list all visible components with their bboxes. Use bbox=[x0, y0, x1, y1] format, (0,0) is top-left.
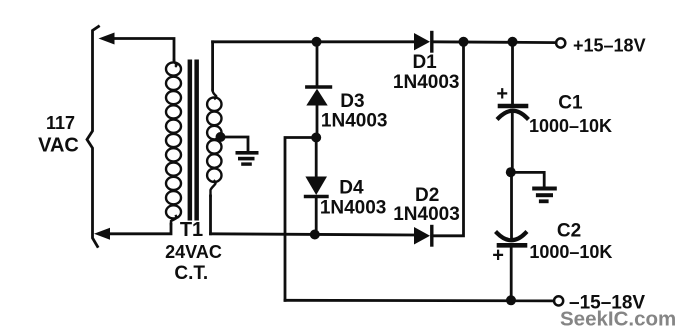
node junction top D2 riser bbox=[459, 37, 469, 47]
wire primary top lead with arrow bbox=[111, 39, 174, 61]
svg-text:VAC: VAC bbox=[38, 134, 79, 156]
wire D3 branch vertical bbox=[316, 42, 319, 86]
wire top bus right of D1 bbox=[434, 40, 557, 44]
wire C2 to negative rail bbox=[510, 248, 513, 301]
wire ground junction to ground bbox=[511, 172, 544, 186]
wire midpoint to D4 bbox=[315, 138, 318, 177]
wire ground junction to C2 bbox=[510, 172, 513, 238]
svg-text:D4: D4 bbox=[339, 177, 364, 198]
svg-text:SeekIC.com: SeekIC.com bbox=[560, 308, 676, 331]
wire D3 anode to midpoint bbox=[316, 106, 319, 138]
diode D1 bbox=[414, 33, 432, 52]
wire left vertical 117VAC side bbox=[87, 27, 99, 247]
wire top bus bbox=[213, 40, 414, 43]
svg-text:1N4003: 1N4003 bbox=[393, 204, 460, 225]
wire secondary top lead bbox=[211, 42, 214, 90]
wire bottom bus secondary bbox=[211, 234, 415, 235]
wire midpoint to negative rail bbox=[285, 138, 316, 301]
wire secondary bottom lead bbox=[209, 196, 212, 234]
diode D2 bbox=[414, 227, 432, 246]
svg-text:1000–10K: 1000–10K bbox=[529, 242, 612, 262]
wire D4 cathode to bottom bus bbox=[315, 197, 318, 235]
terminal -15-18V bbox=[554, 296, 563, 305]
transformer T1 secondary winding bbox=[207, 90, 221, 196]
wire C1 to ground junction bbox=[511, 114, 514, 172]
svg-text:D3: D3 bbox=[340, 91, 364, 112]
svg-text:117: 117 bbox=[46, 113, 75, 133]
svg-text:+15–18V: +15–18V bbox=[573, 35, 646, 55]
ground right bbox=[532, 187, 557, 204]
svg-text:T1: T1 bbox=[180, 219, 203, 241]
wire C1 branch vertical bbox=[511, 42, 514, 104]
transformer core bbox=[188, 60, 193, 221]
node junction top D3 bbox=[312, 37, 322, 47]
svg-text:24VAC: 24VAC bbox=[165, 242, 222, 262]
arrowhead top left bbox=[99, 33, 115, 45]
node junction bottom D4 bbox=[310, 230, 320, 240]
svg-text:C1: C1 bbox=[558, 93, 583, 114]
node midpoint D3/D4 bbox=[311, 133, 321, 143]
arrowhead bottom left bbox=[94, 228, 110, 240]
wire transformer centre tap to ground bbox=[221, 137, 248, 152]
svg-text:+: + bbox=[496, 83, 508, 105]
transformer T1 primary winding bbox=[166, 60, 181, 224]
svg-text:D1: D1 bbox=[412, 52, 437, 73]
svg-text:C2: C2 bbox=[557, 220, 581, 241]
svg-text:1N4003: 1N4003 bbox=[320, 197, 387, 218]
wire D2 cathode riser to top bus bbox=[432, 42, 464, 236]
node ground junction bbox=[506, 167, 516, 177]
capacitor C1 bbox=[499, 106, 528, 118]
svg-text:+: + bbox=[492, 245, 504, 267]
svg-text:1N4003: 1N4003 bbox=[393, 72, 460, 93]
diode D3 bbox=[306, 87, 330, 106]
ground centre tap bbox=[236, 151, 259, 166]
diode D4 bbox=[305, 177, 327, 197]
svg-text:D2: D2 bbox=[415, 185, 439, 206]
capacitor C2 bbox=[497, 233, 526, 245]
svg-text:1N4003: 1N4003 bbox=[321, 110, 388, 131]
wire negative rail bbox=[285, 299, 554, 302]
node centre tap bbox=[216, 132, 226, 142]
node junction top C1 bbox=[508, 37, 518, 47]
svg-text:1000–10K: 1000–10K bbox=[529, 116, 612, 136]
terminal +15-18V bbox=[556, 38, 565, 47]
node junction bottom C2 bbox=[506, 295, 516, 305]
svg-text:C.T.: C.T. bbox=[174, 263, 208, 284]
wire primary bottom lead with arrow bbox=[106, 224, 171, 234]
